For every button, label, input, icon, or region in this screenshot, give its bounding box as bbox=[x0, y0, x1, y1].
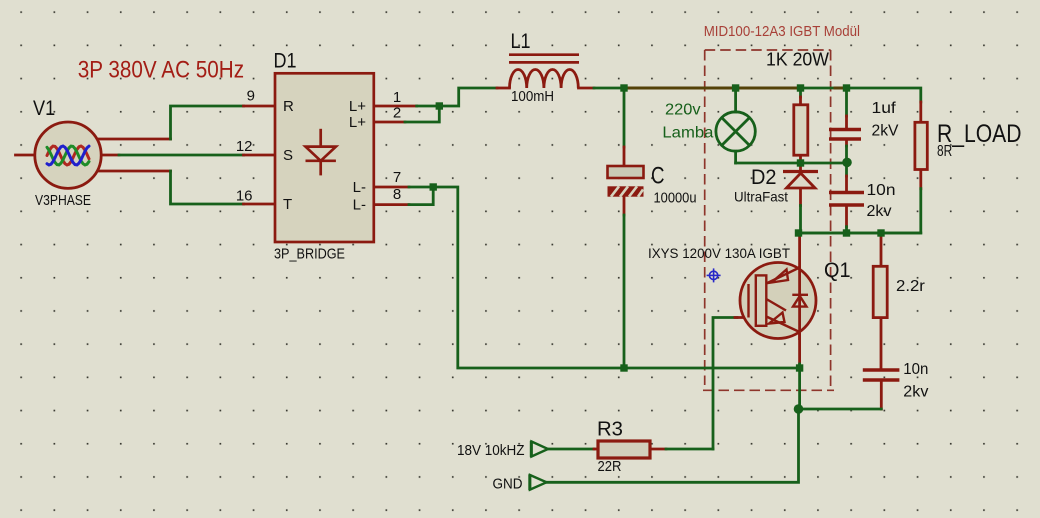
svg-text:7: 7 bbox=[393, 169, 401, 186]
wire: Q1 collector red bbox=[798, 235, 801, 365]
junction 1uf top node bbox=[843, 84, 850, 91]
svg-text:Lamba: Lamba bbox=[662, 125, 713, 142]
wire: 2.2r top red stub bbox=[880, 235, 883, 267]
wire: L1 left red lead bbox=[497, 87, 510, 90]
wire: V1 pin R stub (red) bbox=[97, 138, 171, 141]
module boundary box MID100-12A3 bbox=[703, 50, 834, 390]
junction pins 1-2 node bbox=[436, 102, 443, 109]
wire: bridge R pin stub bbox=[244, 105, 276, 108]
wire: S green bbox=[119, 154, 244, 157]
wire: brown bus 624-800 bbox=[624, 87, 801, 90]
capacitor 1uf 2kV bbox=[829, 130, 861, 140]
wire: bridge pin1 stub bbox=[374, 105, 417, 108]
wire: C bottom red lead bbox=[623, 197, 626, 215]
diode symbol inside D1 bbox=[306, 129, 336, 176]
wire: gate riser bbox=[713, 318, 737, 450]
resistor 1K 20W bbox=[794, 105, 808, 155]
svg-text:V1: V1 bbox=[33, 96, 55, 120]
terminal input 18V 10kHZ bbox=[531, 441, 548, 457]
svg-text:10000u: 10000u bbox=[654, 191, 697, 207]
wire: 1uf top green bbox=[845, 88, 848, 116]
terminal input GND bbox=[530, 474, 547, 490]
emitter diagonal 2 bbox=[766, 317, 799, 333]
resistor R3 22R bbox=[598, 441, 650, 458]
junction GND riser node bbox=[794, 404, 804, 414]
svg-text:L+: L+ bbox=[349, 114, 366, 131]
emitter arrowhead bbox=[769, 313, 785, 324]
svg-text:8R: 8R bbox=[937, 143, 952, 160]
wire: lamp top green bbox=[734, 88, 737, 112]
svg-text:UltraFast: UltraFast bbox=[734, 189, 788, 205]
wire: 1uf bottom red lead bbox=[845, 139, 848, 146]
svg-text:16: 16 bbox=[236, 188, 253, 205]
svg-text:22R: 22R bbox=[598, 458, 622, 475]
body diode bar bbox=[792, 294, 808, 296]
svg-text:1: 1 bbox=[393, 89, 401, 106]
collector diagonal bbox=[766, 268, 799, 284]
svg-text:L-: L- bbox=[353, 197, 366, 214]
wire: green 800-835 bbox=[801, 87, 836, 90]
wire: 10n top red lead bbox=[845, 176, 848, 193]
svg-text:C: C bbox=[651, 163, 665, 190]
bridge rectifier D1 3P_BRIDGE bbox=[275, 73, 374, 242]
wire: R3 left red stub bbox=[594, 448, 598, 451]
wire: R_LOAD bottom stub bbox=[919, 170, 922, 189]
wire: bridge pin2 stub bbox=[374, 121, 405, 124]
svg-text:3P_BRIDGE: 3P_BRIDGE bbox=[274, 247, 345, 263]
wire: L1 to C junction bbox=[594, 87, 624, 90]
wire: R3 to gate riser bbox=[666, 448, 713, 451]
wire: L1 right red lead bbox=[579, 87, 595, 90]
wire: brown 835-846 bbox=[835, 87, 847, 90]
svg-text:GND: GND bbox=[493, 477, 523, 493]
wire: GND riser bbox=[547, 409, 799, 482]
wire: bridge pin8 stub bbox=[374, 203, 409, 206]
svg-text:100mH: 100mH bbox=[511, 89, 554, 105]
wire: R_LOAD bottom green to bus233 bbox=[799, 189, 921, 233]
junction pins 7-8 node bbox=[430, 183, 437, 190]
collector-emitter internal line bbox=[798, 266, 801, 340]
wire: lamp bottom green to net163 bbox=[734, 151, 737, 163]
wire: green 846.5 to R_LOAD top bbox=[847, 88, 921, 102]
wire: bus409 green bbox=[799, 408, 882, 411]
svg-text:R3: R3 bbox=[597, 418, 623, 440]
wire: C top red lead bbox=[623, 147, 626, 166]
wire: V1 pin T stub (red) bbox=[97, 170, 171, 173]
svg-text:L-: L- bbox=[353, 179, 366, 196]
svg-text:D2: D2 bbox=[751, 165, 777, 189]
wire: bus233 horizontal bbox=[799, 232, 921, 235]
wire: V1 to R green bbox=[171, 106, 244, 139]
wire: junction to L1 bbox=[439, 88, 497, 106]
svg-text:2kv: 2kv bbox=[867, 203, 892, 220]
svg-text:1K 20W: 1K 20W bbox=[766, 50, 829, 70]
wire: C bottom green to bus368 bbox=[623, 215, 626, 368]
origin marker crosshair bbox=[707, 268, 721, 282]
wire: 2.2r bottom red lead bbox=[880, 318, 883, 369]
transistor Q1 IGBT bbox=[740, 263, 816, 341]
wire: D2 bottom red lead bbox=[799, 188, 802, 206]
wire: C branch green upper bbox=[623, 88, 626, 147]
svg-text:L1: L1 bbox=[511, 29, 531, 53]
body diode triangle bbox=[793, 296, 807, 307]
wire: 1uf bottom green bit bbox=[845, 146, 848, 163]
wire: 1uf top red lead bbox=[845, 116, 848, 130]
wire: R3 right red stub bbox=[650, 448, 666, 451]
capacitor 10n 2kv upper bbox=[829, 193, 864, 206]
junction 1uf/10n node bbox=[842, 158, 852, 168]
resistor R_LOAD 8R bbox=[915, 122, 927, 169]
svg-text:8: 8 bbox=[393, 186, 401, 203]
svg-text:10n: 10n bbox=[903, 361, 928, 378]
svg-text:2: 2 bbox=[393, 105, 401, 122]
svg-text:2kV: 2kV bbox=[872, 123, 899, 140]
svg-text:220v: 220v bbox=[665, 102, 701, 119]
wire: R_LOAD top stub bbox=[919, 102, 922, 122]
wire: bridge pin7 stub bbox=[374, 186, 409, 189]
resistor 2.2r bbox=[873, 266, 887, 317]
channel bar bbox=[756, 275, 767, 325]
junction 2.2r top node bbox=[877, 229, 884, 236]
svg-text:S: S bbox=[283, 147, 293, 164]
svg-text:9: 9 bbox=[247, 88, 255, 105]
svg-text:1uf: 1uf bbox=[872, 100, 897, 117]
wire: 10n top green bit bbox=[845, 163, 848, 176]
lamp 220v Lamba bbox=[716, 112, 755, 151]
wire: 10n bottom red lead bbox=[845, 205, 848, 227]
junction lamp top node bbox=[732, 84, 739, 91]
svg-text:T: T bbox=[283, 196, 292, 213]
svg-text:L+: L+ bbox=[349, 98, 366, 115]
wire: D2 bottom green to bus233 bbox=[799, 206, 802, 234]
wire: D2 top red stub bbox=[799, 163, 802, 172]
junction L1/C node bbox=[620, 84, 627, 91]
wire: 1K top green bbox=[799, 88, 802, 97]
svg-text:2.2r: 2.2r bbox=[896, 278, 926, 295]
wire: bridge S pin stub bbox=[244, 154, 276, 157]
wire: net163 horizontal bbox=[736, 162, 847, 165]
junction collector node bbox=[795, 229, 802, 236]
svg-text:10n: 10n bbox=[867, 182, 896, 199]
wire: V1 left stub bbox=[16, 154, 36, 157]
3-phase source V1 V3PHASE bbox=[35, 122, 101, 188]
wire: 18V terminal green bbox=[548, 448, 594, 451]
gate vertical line bbox=[747, 284, 749, 318]
capacitor C 10000u electrolytic bbox=[608, 166, 644, 197]
svg-text:12: 12 bbox=[236, 138, 253, 155]
svg-text:18V 10kHZ: 18V 10kHZ bbox=[457, 443, 525, 459]
inductor L1 100mH bbox=[509, 55, 579, 88]
svg-text:Q1: Q1 bbox=[824, 258, 851, 282]
wire: V1 to T green bbox=[171, 171, 244, 204]
junction D2 anode node bbox=[797, 159, 804, 166]
svg-text:2kv: 2kv bbox=[903, 384, 928, 401]
diode D2 UltraFast bbox=[783, 172, 818, 189]
wire: emitter green to bus409 bbox=[798, 364, 801, 409]
wire: gate red stub bbox=[735, 316, 749, 319]
junction 10n bottom node bbox=[843, 229, 850, 236]
wire: pin1 green to junction bbox=[417, 105, 440, 108]
wire: 10n2kv bottom red lead bbox=[880, 382, 883, 410]
wire: 1K top red stub bbox=[799, 97, 802, 105]
wire: 1K bottom red stub bbox=[799, 155, 802, 163]
wire: bridge T pin stub bbox=[244, 203, 276, 206]
svg-text:3P 380V AC 50Hz: 3P 380V AC 50Hz bbox=[78, 57, 244, 84]
svg-text:R: R bbox=[283, 98, 294, 115]
svg-text:V3PHASE: V3PHASE bbox=[35, 193, 91, 209]
wire: junction to bus368 bbox=[433, 187, 799, 368]
svg-text:MID100-12A3 IGBT Modül: MID100-12A3 IGBT Modül bbox=[704, 23, 860, 40]
collector arrowhead bbox=[772, 270, 789, 283]
capacitor 10n 2kv lower bbox=[863, 370, 900, 380]
emitter diagonal 1 bbox=[766, 299, 786, 311]
junction C bottom node bbox=[620, 364, 627, 371]
wire: V1 pin S stub (red) bbox=[101, 154, 119, 157]
wire: pin8 green up bbox=[409, 187, 433, 205]
junction 1K top node bbox=[797, 84, 804, 91]
wire: pin2 green up to junction bbox=[405, 106, 439, 122]
wire: 10n bottom green to bus233 bbox=[845, 227, 848, 233]
svg-text:D1: D1 bbox=[274, 49, 297, 73]
junction emitter node bbox=[796, 364, 803, 371]
wire: pin7 green bbox=[409, 186, 433, 189]
svg-text:IXYS 1200V 130A IGBT: IXYS 1200V 130A IGBT bbox=[648, 246, 790, 262]
